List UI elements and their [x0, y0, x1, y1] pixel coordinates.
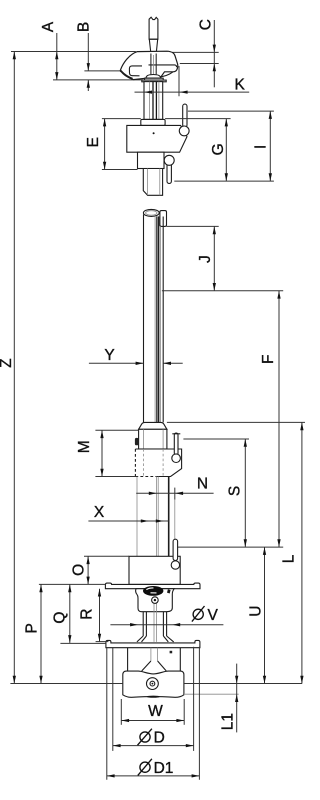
dimension J line — [213, 226, 215, 290]
seal nut — [152, 597, 159, 604]
K arrow at wing-tip plane — [180, 90, 188, 93]
svg-text:D1: D1 — [154, 760, 174, 777]
extension line handle bottom (A/B datum) — [53, 79, 144, 81]
sleeve cap — [139, 422, 167, 429]
dimension Z line — [13, 52, 15, 684]
svg-text:G: G — [210, 143, 227, 155]
svg-text:I: I — [253, 145, 270, 149]
label OD — [140, 732, 150, 742]
rod inside tube — [155, 216, 160, 422]
svg-text:W: W — [148, 703, 163, 720]
square rod lower end — [143, 169, 162, 196]
flange pin shaft — [174, 433, 178, 455]
dimension N line — [136, 492, 213, 494]
svg-text:O: O — [70, 564, 87, 576]
svg-text:N: N — [197, 476, 208, 493]
dimension L1 line — [236, 664, 238, 733]
extension line J bottom / F top — [162, 290, 283, 292]
dimension OD line — [113, 745, 194, 747]
dimension E line — [102, 118, 141, 120]
tube top sleeve clip — [160, 211, 167, 227]
lower pin hanging — [167, 162, 171, 184]
upper pin shaft — [183, 104, 187, 127]
dimension B line — [87, 33, 89, 71]
flange pin ring — [172, 454, 181, 463]
dimension K line — [135, 91, 250, 93]
stem inside neck — [150, 82, 159, 120]
guide flange hidden outline — [135, 449, 181, 477]
mounting plate — [105, 583, 200, 589]
body center dot — [153, 132, 155, 134]
washer under handle — [145, 78, 164, 80]
dimension C line — [213, 20, 215, 87]
svg-text:Y: Y — [104, 347, 114, 364]
seal disc — [143, 586, 163, 596]
svg-text:Q: Q — [52, 612, 69, 624]
dimension OD1 line — [107, 775, 200, 777]
svg-text:P: P — [23, 623, 40, 633]
dimension F line — [278, 291, 280, 547]
svg-text:V: V — [208, 607, 219, 624]
svg-text:E: E — [85, 137, 102, 147]
lower clip pin — [173, 539, 178, 560]
dimension I line — [269, 111, 271, 181]
extension line S top — [183, 438, 249, 440]
handle left wing fold line — [129, 66, 142, 76]
dimension Q line — [69, 584, 71, 643]
extension line L top / sleeve top — [167, 421, 305, 423]
extension line B top at wing tip — [84, 70, 120, 72]
foot bottom notch — [147, 696, 160, 698]
seat plate — [106, 640, 200, 647]
reference line at foot bolt level — [10, 683, 122, 685]
dimension R line — [99, 589, 101, 642]
sleeve body — [139, 429, 167, 449]
stem taper below joint — [149, 39, 157, 53]
sleeve set screw left — [135, 438, 139, 445]
extension line P top — [39, 583, 106, 585]
leg flares — [137, 636, 174, 642]
dimension S line — [244, 439, 246, 547]
extension line C bottom — [180, 63, 219, 65]
upper pin ring — [179, 126, 189, 136]
extension line J top — [167, 225, 219, 227]
svg-text:F: F — [260, 355, 277, 364]
extension lines OD — [112, 648, 114, 751]
dimension M lines — [95, 429, 138, 431]
svg-text:D: D — [154, 730, 165, 747]
handle hub nut — [146, 75, 161, 79]
svg-text:L: L — [281, 554, 298, 563]
valve cage funnel — [136, 589, 175, 612]
dimension L line — [301, 422, 303, 683]
guide legs — [143, 612, 166, 636]
valve head body — [127, 125, 187, 152]
extension line G top — [165, 118, 231, 120]
dimension Y line — [89, 362, 143, 364]
dimension X line — [88, 520, 168, 522]
foot disc — [123, 671, 184, 697]
dimension P line — [40, 584, 42, 683]
handle left wing lower edge — [121, 71, 133, 79]
svg-text:X: X — [94, 504, 105, 521]
dimension G line — [225, 119, 227, 182]
handle right wing fold line — [149, 65, 177, 67]
svg-text:L1: L1 — [220, 713, 237, 730]
svg-text:Z: Z — [0, 358, 15, 367]
valve bonnet block — [129, 556, 180, 584]
svg-text:J: J — [197, 255, 214, 263]
lower collar — [138, 152, 165, 168]
dimension U line — [264, 547, 266, 683]
svg-text:M: M — [76, 440, 93, 453]
extension line I top — [188, 110, 274, 112]
label OV — [193, 609, 203, 619]
extension line C top — [172, 51, 219, 53]
svg-text:B: B — [76, 22, 93, 32]
top collar on body — [141, 119, 165, 125]
extension lines W — [120, 699, 122, 725]
dimension OV line — [110, 624, 223, 626]
extension lines OD1 — [106, 648, 108, 780]
dimension A line — [56, 33, 58, 80]
lower clip ring — [171, 561, 179, 569]
extension line R bottom — [96, 641, 109, 643]
stem trumpet into foot — [151, 648, 158, 661]
svg-text:U: U — [248, 605, 265, 616]
svg-text:S: S — [227, 486, 244, 496]
stem rod top end — [149, 17, 158, 39]
extension line handle top (A/Z datum) — [11, 51, 136, 53]
cage bolt dot — [170, 651, 173, 654]
seal clip tick — [167, 589, 171, 593]
stem between legs — [154, 604, 157, 642]
svg-text:A: A — [40, 21, 57, 32]
extension line G/I bottom — [174, 180, 274, 182]
extension line Q bottom — [60, 642, 106, 644]
extension line L1 bottom — [185, 693, 239, 695]
tube walls — [144, 215, 164, 423]
stem through handle — [151, 54, 156, 75]
svg-text:K: K — [235, 77, 246, 94]
tube top cap — [143, 209, 159, 216]
cage walls — [128, 648, 181, 671]
lower tube below flange — [136, 477, 138, 557]
label OD1 — [140, 762, 150, 772]
dimension W line — [121, 720, 184, 722]
foot bolt — [147, 678, 159, 690]
lower pin ring — [164, 155, 174, 165]
dimension O line — [84, 555, 129, 557]
extension line S bottom / U top — [177, 546, 283, 548]
svg-text:C: C — [198, 19, 215, 30]
bonnet neck — [144, 82, 163, 120]
svg-text:R: R — [79, 608, 96, 619]
K arrow at neck — [144, 90, 152, 93]
extension line from wing tip down — [178, 66, 180, 96]
handle silhouette — [120, 51, 177, 79]
